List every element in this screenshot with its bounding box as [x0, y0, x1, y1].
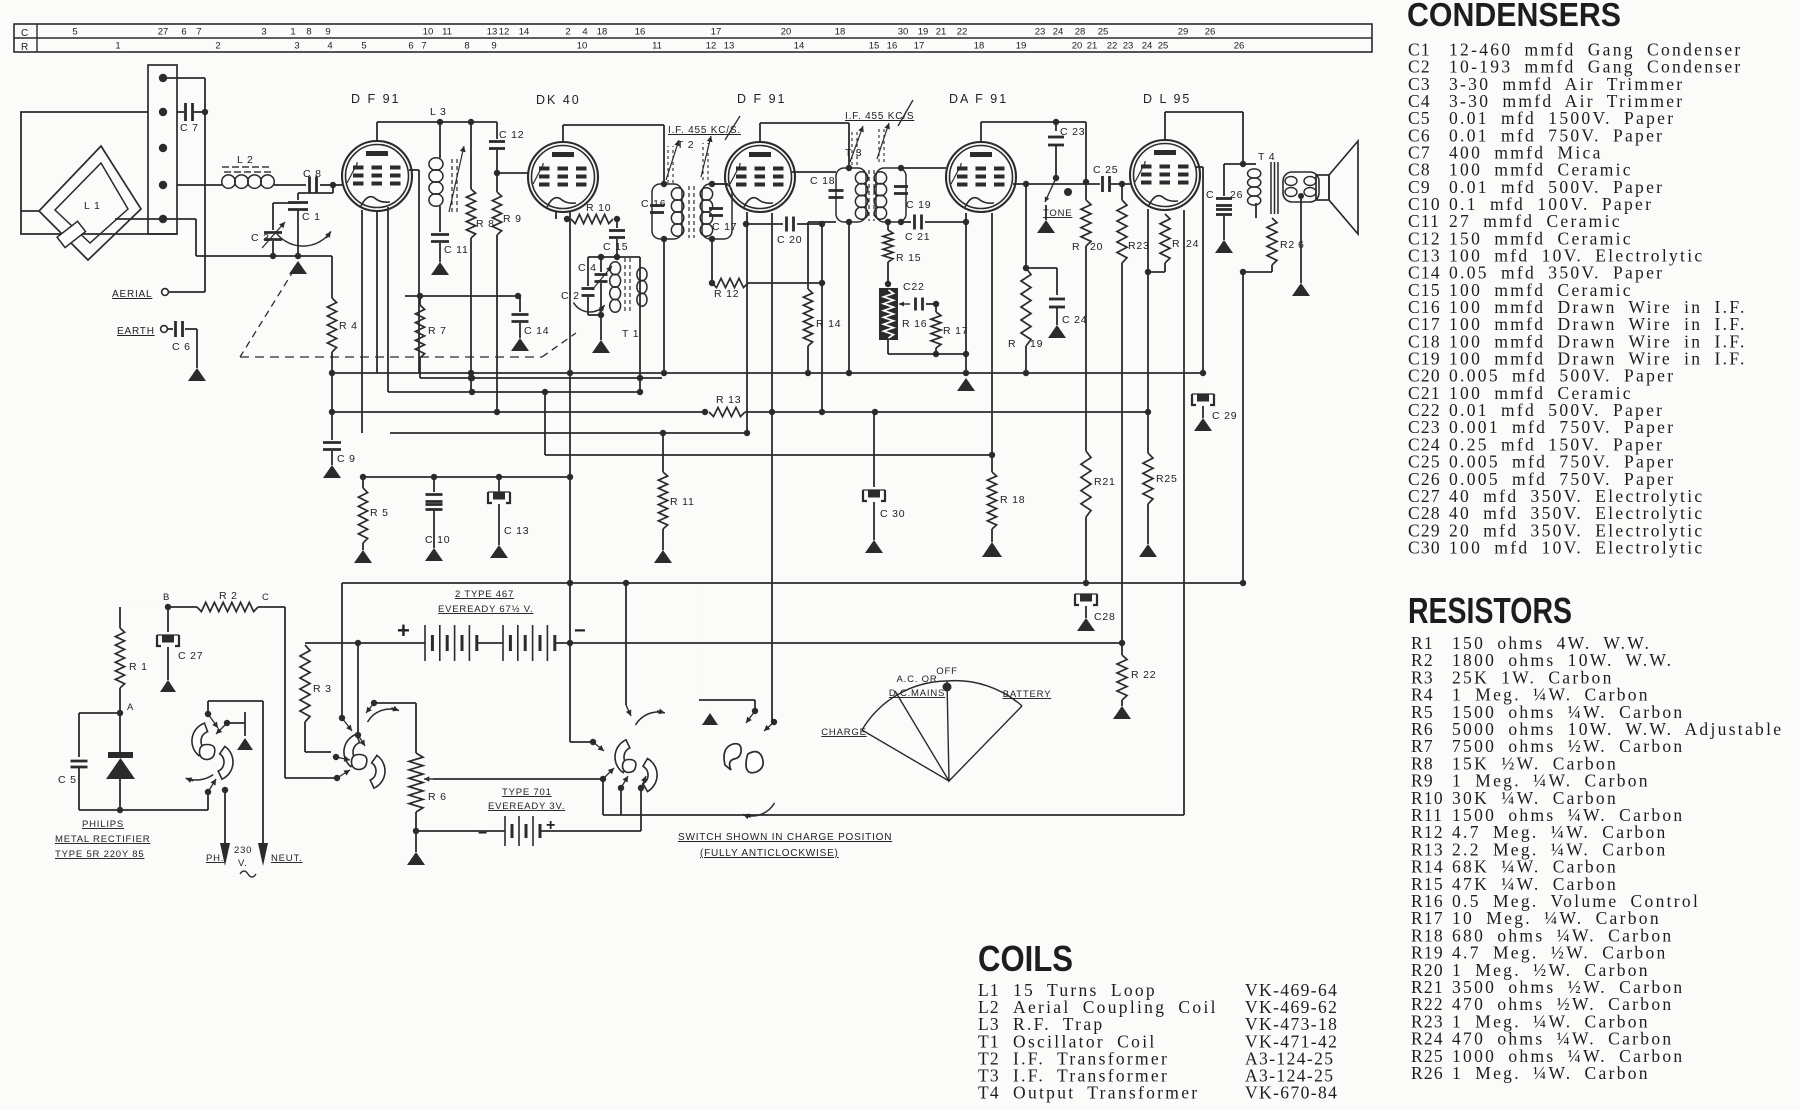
capacitor C22 [903, 281, 939, 311]
capacitor C26 [1206, 164, 1243, 240]
ground below R22 [1113, 706, 1131, 719]
svg-text:C 7: C 7 [180, 122, 199, 134]
svg-text:C 17: C 17 [712, 221, 737, 233]
svg-text:−: − [478, 825, 488, 842]
capacitor C10 [425, 477, 450, 548]
svg-text:27: 27 [158, 27, 169, 38]
wire to R6 [366, 700, 416, 753]
svg-text:R 17: R 17 [943, 325, 968, 337]
svg-text:20: 20 [1090, 241, 1103, 253]
wire V4 top lead [980, 122, 982, 142]
svg-text:A.C. OR: A.C. OR [897, 674, 938, 685]
svg-text:EVEREADY 67½ V.: EVEREADY 67½ V. [438, 604, 533, 615]
resistor R14 [803, 222, 841, 376]
svg-text:C 18: C 18 [810, 175, 835, 187]
tube V4 DAF91 label [949, 92, 1008, 106]
ground below R11 [654, 550, 672, 563]
ground below C11 [431, 262, 449, 275]
resistor R21 [1081, 412, 1116, 586]
tube V3 DF91 label [737, 92, 787, 106]
resistor R13 [709, 394, 1148, 417]
wire V5 filament leads [1145, 209, 1165, 415]
svg-text:1 Meg. ¼W. Carbon: 1 Meg. ¼W. Carbon [1452, 1063, 1650, 1083]
oscillator coil T1 [588, 257, 647, 340]
mains labels [206, 845, 302, 877]
svg-text:R 12: R 12 [714, 288, 739, 300]
wire V3 top lead [759, 123, 761, 142]
tube V2 DK40 label [536, 93, 581, 107]
svg-text:R 5: R 5 [370, 507, 389, 519]
IF transformer T3 [836, 147, 906, 222]
svg-text:C 14: C 14 [524, 325, 549, 337]
HT bus E [342, 582, 1243, 584]
wire T2 bottom left column [661, 239, 667, 376]
wire T1 secondary column [637, 257, 643, 395]
wire V2 top lead [562, 125, 564, 142]
svg-text:A: A [127, 702, 134, 713]
svg-text:R 9: R 9 [503, 213, 522, 225]
wire V3 lead to S1d [772, 721, 774, 723]
ground below R6 [407, 831, 425, 865]
bus line H [545, 392, 992, 455]
rectifier label [55, 819, 150, 860]
screen bus left caps [360, 474, 570, 480]
svg-text:21: 21 [1087, 41, 1098, 52]
svg-text:C30: C30 [1408, 537, 1441, 557]
svg-text:23: 23 [1035, 27, 1046, 38]
svg-text:C 11: C 11 [444, 244, 469, 256]
capacitor C16 [641, 198, 666, 213]
capacitor C15 [603, 219, 628, 257]
svg-text:C 9: C 9 [337, 453, 356, 465]
ground below R18 [982, 542, 1002, 557]
svg-text:24: 24 [1186, 238, 1199, 250]
HT bus R13 line [332, 409, 708, 415]
svg-text:C 2: C 2 [561, 290, 580, 302]
IF label 1 [668, 116, 741, 140]
capacitor C7 [177, 103, 205, 134]
capacitor C5 [58, 713, 120, 810]
volume control R16 [879, 288, 927, 340]
capacitor C11 [431, 235, 469, 263]
IF label 2 [845, 100, 914, 126]
wire V5 plate lead [1195, 167, 1206, 376]
ground below C30 [865, 540, 883, 553]
resistor R15 [883, 222, 921, 287]
svg-text:30: 30 [898, 27, 909, 38]
rotation arrow S1c [636, 709, 665, 726]
resistor R22 [1117, 643, 1156, 706]
tube V3 DF91 [725, 142, 795, 212]
terminal strip [148, 65, 177, 234]
capacitor C25 [1093, 164, 1131, 192]
svg-text:+: + [397, 618, 411, 643]
wire V2 filament leads [556, 211, 573, 646]
svg-text:R 16: R 16 [902, 318, 927, 330]
coils list [978, 938, 1338, 1103]
resistor R9 [492, 192, 521, 415]
svg-text:C 5: C 5 [58, 774, 77, 786]
earth terminal [117, 326, 167, 337]
resistor R23 [1117, 184, 1150, 646]
aerial terminal [112, 289, 205, 300]
capacitor C2 [561, 257, 605, 315]
svg-text:19: 19 [1030, 338, 1043, 350]
svg-text:L 2: L 2 [237, 154, 254, 166]
svg-text:3: 3 [294, 41, 299, 52]
svg-text:26: 26 [1205, 27, 1216, 38]
svg-text:R 7: R 7 [428, 325, 447, 337]
wire V4 plate lead [1013, 181, 1125, 187]
ground below T1 [592, 340, 610, 353]
svg-text:R 13: R 13 [716, 394, 741, 406]
svg-text:R2: R2 [1280, 239, 1295, 251]
svg-text:C 20: C 20 [777, 234, 802, 246]
svg-text:29: 29 [1178, 27, 1189, 38]
svg-text:18: 18 [835, 27, 846, 38]
svg-text:8: 8 [464, 41, 469, 52]
wire earth to ground [196, 329, 198, 368]
svg-text:C 21: C 21 [905, 231, 930, 243]
svg-text:BATTERY: BATTERY [1003, 689, 1052, 700]
svg-text:24: 24 [1053, 27, 1064, 38]
gang link dashed [240, 270, 576, 357]
resistor R17 [931, 304, 968, 357]
svg-text:C 13: C 13 [504, 525, 529, 537]
resistor R3 [300, 643, 332, 752]
svg-text:C 19: C 19 [906, 199, 931, 211]
capacitor C19 [894, 168, 931, 211]
svg-text:R: R [1172, 238, 1180, 250]
ground below C1 [289, 261, 307, 274]
svg-text:C: C [21, 28, 29, 39]
tube V2 DK40 [528, 142, 598, 212]
ground on filament bus [957, 373, 975, 391]
ground below R25 [1139, 544, 1157, 557]
ground below C14 [511, 338, 529, 351]
svg-text:R23: R23 [1128, 240, 1150, 252]
tube V5 DL95 label [1143, 92, 1191, 106]
ground near S1a [237, 723, 253, 750]
svg-text:24: 24 [1142, 41, 1153, 52]
svg-text:28: 28 [1075, 27, 1086, 38]
resistor R7 [415, 296, 446, 378]
tone switch [1045, 175, 1072, 220]
svg-text:15: 15 [869, 41, 880, 52]
capacitor C30 [863, 412, 905, 540]
svg-text:L 1: L 1 [84, 200, 101, 212]
fan OFF dot [943, 683, 952, 692]
svg-text:22: 22 [1107, 41, 1118, 52]
capacitor C23 [1048, 122, 1085, 176]
R6 wiper [424, 768, 614, 782]
svg-text:TYPE 701: TYPE 701 [502, 787, 552, 798]
switch S1b [344, 734, 385, 788]
svg-text:25: 25 [1098, 27, 1109, 38]
svg-text:1: 1 [115, 41, 120, 52]
svg-text:5: 5 [361, 41, 366, 52]
node T1 top junctions [588, 254, 640, 260]
battery B1 label [438, 589, 533, 615]
svg-text:R 1: R 1 [129, 661, 148, 673]
svg-text:6: 6 [181, 27, 186, 38]
ground below T4 secondary [1292, 193, 1310, 296]
bus line B [388, 389, 640, 395]
svg-text:26: 26 [1234, 41, 1245, 52]
wire C20 column [819, 224, 825, 415]
svg-text:C 12: C 12 [499, 129, 524, 141]
capacitor C12 [489, 122, 524, 192]
loudspeaker [1316, 141, 1358, 234]
S1a contacts [205, 711, 230, 795]
battery B2 3V [416, 790, 641, 846]
svg-text:13: 13 [724, 41, 735, 52]
S1c contacts [590, 739, 647, 791]
resistor R18 [987, 455, 1025, 542]
capacitor C18 [810, 175, 844, 198]
svg-text:C 24: C 24 [1062, 314, 1087, 326]
svg-text:8: 8 [306, 27, 311, 38]
capacitor C8 [303, 168, 333, 194]
svg-text:R 3: R 3 [313, 683, 332, 695]
svg-text:16: 16 [887, 41, 898, 52]
tube V5 DL95 [1130, 140, 1200, 210]
bus line D [390, 430, 747, 436]
svg-text:EVEREADY 3V.: EVEREADY 3V. [488, 801, 565, 812]
mains leads [220, 701, 268, 866]
resistor R2 [168, 590, 285, 612]
rotation arrow S1b [368, 706, 399, 722]
ground below tone switch [1037, 220, 1055, 233]
wire T4 column down [1240, 272, 1246, 586]
svg-text:C: C [262, 592, 270, 603]
svg-text:2: 2 [215, 41, 220, 52]
svg-text:I.F. 455 KC/S.: I.F. 455 KC/S. [668, 125, 741, 136]
svg-text:TYPE 5R 220Y 85: TYPE 5R 220Y 85 [55, 849, 144, 860]
svg-text:TONE: TONE [1043, 208, 1072, 219]
switch S1d [724, 744, 763, 773]
capacitor C24 [1049, 299, 1087, 326]
svg-text:R 18: R 18 [1000, 494, 1025, 506]
ground below C10 [425, 548, 443, 561]
wire V3 plate lead [792, 171, 836, 173]
switch caption [678, 832, 892, 859]
svg-text:C 1: C 1 [302, 211, 321, 223]
trimmer C3 [251, 203, 285, 256]
svg-text:T4: T4 [978, 1083, 1000, 1103]
svg-text:11: 11 [442, 27, 452, 38]
svg-text:L 3: L 3 [430, 106, 447, 118]
svg-text:OFF: OFF [936, 666, 957, 677]
svg-text:20: 20 [1072, 41, 1083, 52]
capacitor C28 [1075, 583, 1116, 623]
wire top bus V3 to T3 [760, 123, 849, 168]
variable capacitor C1 [275, 193, 331, 259]
capacitor C14 [512, 296, 550, 338]
svg-text:12: 12 [706, 41, 717, 52]
svg-text:7: 7 [421, 41, 426, 52]
T2 junctions [661, 181, 716, 242]
svg-text:−: − [574, 620, 586, 642]
svg-text:R25: R25 [1156, 473, 1178, 485]
ground below C9 [323, 465, 341, 478]
ground below C6 [188, 368, 206, 381]
wire C7/aerial column [202, 109, 208, 292]
svg-text:C 10: C 10 [425, 534, 450, 546]
capacitor C21 [901, 215, 969, 244]
svg-text:R 4: R 4 [339, 320, 358, 332]
ground below R5 [354, 550, 372, 563]
wire battery plus drop [355, 640, 361, 732]
metal rectifier [106, 713, 135, 810]
wire HT drop to S1c [623, 580, 632, 716]
svg-text:2: 2 [565, 27, 570, 38]
svg-text:R: R [1008, 338, 1016, 350]
S1d contacts [746, 708, 777, 731]
svg-text:11: 11 [652, 41, 662, 52]
T3 adjust arrows [850, 123, 890, 165]
svg-text:2 TYPE 467: 2 TYPE 467 [455, 589, 514, 600]
resistor R8 [466, 122, 494, 392]
fan labels [821, 666, 1051, 738]
svg-text:COILS: COILS [978, 938, 1073, 979]
wire bus E left drop [341, 583, 343, 715]
svg-text:C28: C28 [1094, 611, 1116, 623]
svg-text:17: 17 [914, 41, 925, 52]
node C8/grid junction [330, 182, 342, 188]
svg-text:20: 20 [781, 27, 792, 38]
wire V1 plate lead [409, 170, 419, 373]
svg-text:21: 21 [936, 27, 947, 38]
resistor R25 [1143, 412, 1178, 544]
svg-text:9: 9 [491, 41, 496, 52]
svg-text:VK-670-84: VK-670-84 [1245, 1083, 1338, 1103]
wire outer aerial loop [21, 112, 177, 234]
svg-text:R 11: R 11 [670, 496, 695, 508]
resistor R10 [564, 202, 620, 224]
svg-text:26: 26 [1230, 189, 1243, 201]
switch S1c [615, 740, 657, 792]
svg-text:4: 4 [582, 27, 587, 38]
coil L3 RF trap [429, 106, 447, 232]
wire T3 bottom left column [846, 222, 852, 376]
node B [163, 592, 171, 610]
node grid2 junction [494, 170, 528, 176]
wire V5 top lead [1164, 112, 1166, 140]
condensers list [1407, 0, 1747, 557]
resistor R5 [358, 477, 388, 550]
svg-text:18: 18 [974, 41, 985, 52]
svg-text:PHILIPS: PHILIPS [82, 819, 124, 830]
svg-text:1: 1 [290, 27, 295, 38]
wire V3 filament leads [743, 212, 775, 722]
resistors list [1408, 590, 1783, 1083]
svg-text:B: B [163, 592, 170, 603]
resistor R24 [1145, 214, 1199, 275]
wire rectifier bottom [79, 792, 208, 813]
wire T3 to V4 grid [901, 167, 946, 169]
svg-text:100 mfd 10V. Electrolytic: 100 mfd 10V. Electrolytic [1449, 537, 1704, 557]
svg-text:10: 10 [423, 27, 434, 38]
wire T2 bottom right column [709, 239, 715, 286]
ground below C13 [490, 545, 508, 558]
svg-text:D F 91: D F 91 [737, 92, 787, 106]
wire V1 top lead [376, 122, 378, 141]
svg-text:DK 40: DK 40 [536, 93, 581, 107]
svg-text:14: 14 [794, 41, 805, 52]
resistor R6 [409, 753, 447, 834]
svg-text:C 16: C 16 [641, 198, 666, 210]
S1b contacts [333, 715, 365, 781]
svg-text:T 4: T 4 [1258, 151, 1275, 163]
svg-text:DA F 91: DA F 91 [949, 92, 1008, 106]
wire C1 bottom to R4 column [270, 253, 332, 259]
capacitor C29 [1192, 373, 1237, 422]
svg-text:C22: C22 [903, 281, 925, 293]
wire top bus V4 [981, 119, 1086, 125]
svg-text:14: 14 [519, 27, 530, 38]
resistor R20 [1066, 122, 1103, 451]
wire C corner down [285, 607, 337, 778]
svg-text:SWITCH SHOWN IN CHARGE POS: SWITCH SHOWN IN CHARGE POSITION [678, 832, 892, 843]
capacitor C6 [168, 321, 197, 353]
filament bus [332, 372, 1203, 374]
svg-text:10: 10 [577, 41, 588, 52]
coil L2 aerial coupling [222, 154, 275, 188]
ground below C29 [1194, 418, 1212, 431]
battery B1 67V [305, 618, 1122, 661]
wire V1 filament leads [362, 207, 388, 433]
svg-text:D F 91: D F 91 [351, 92, 401, 106]
svg-text:METAL RECTIFIER: METAL RECTIFIER [55, 834, 150, 845]
bottom bus G [603, 210, 1184, 815]
svg-text:R 22: R 22 [1131, 669, 1156, 681]
svg-text:R21: R21 [1094, 476, 1116, 488]
capacitor C20 [746, 217, 825, 247]
svg-text:6: 6 [408, 41, 413, 52]
battery 3V label [488, 787, 565, 812]
resistor R7 top wire [405, 293, 521, 299]
svg-text:23: 23 [1123, 41, 1134, 52]
wire strip bottom branch [163, 219, 273, 256]
svg-text:18: 18 [597, 27, 608, 38]
svg-text:RESISTORS: RESISTORS [1408, 590, 1572, 631]
wire S1c bottom stub [620, 788, 622, 815]
svg-text:C 6: C 6 [172, 341, 191, 353]
S1a contact wires [208, 701, 263, 723]
wire L1 tap to strip [115, 218, 163, 220]
ground below C27 [160, 680, 176, 692]
svg-text:13: 13 [487, 27, 498, 38]
svg-text:R26: R26 [1411, 1063, 1444, 1083]
svg-text:R: R [1072, 241, 1080, 253]
wire L2 to C8 [274, 184, 306, 186]
IF transformer T2 [652, 139, 732, 239]
svg-text:R 14: R 14 [816, 318, 841, 330]
wire top bus V5 to T4 [1165, 112, 1246, 167]
svg-text:C 8: C 8 [303, 168, 322, 180]
ground below C28 [1077, 618, 1095, 631]
svg-text:EARTH: EARTH [117, 326, 155, 337]
resistor R26 [1240, 218, 1305, 275]
svg-text:R 10: R 10 [586, 202, 611, 214]
svg-text:230: 230 [234, 845, 252, 856]
T3 junctions [846, 165, 904, 225]
svg-text:C 25: C 25 [1093, 164, 1118, 176]
svg-text:19: 19 [1016, 41, 1027, 52]
resistor R12 [712, 278, 825, 300]
wire minus column [570, 643, 593, 742]
